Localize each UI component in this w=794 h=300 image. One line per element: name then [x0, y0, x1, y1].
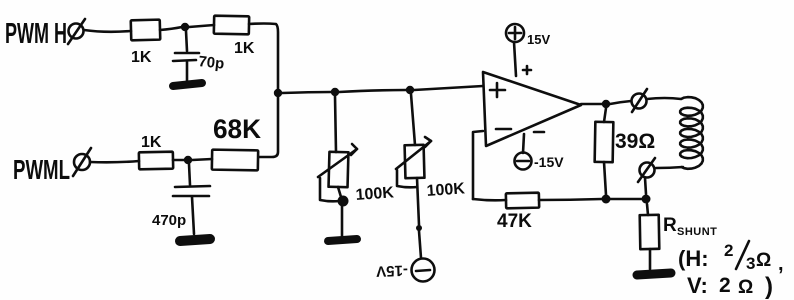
svg-text:2: 2: [724, 241, 733, 260]
ground C2: [180, 239, 210, 241]
svg-text:Ω: Ω: [738, 277, 753, 298]
svg-text:470p: 470p: [152, 212, 186, 229]
terminal PWM H: [68, 19, 85, 44]
svg-text:(H:: (H:: [678, 246, 709, 271]
wire minus input feedback down: [473, 131, 483, 199]
node label PWML: [13, 154, 70, 185]
svg-text:39Ω: 39Ω: [615, 130, 655, 153]
annotation H and V resistance values: [736, 241, 749, 269]
potentiometer P1 100K: [318, 96, 395, 204]
svg-text:100K: 100K: [355, 184, 395, 204]
wire node B to node D: [282, 92, 331, 93]
resistor R7 R_SHUNT: [640, 204, 718, 269]
wire PWMH terminal to R1: [84, 30, 131, 32]
terminal PWML: [73, 148, 91, 176]
wire op-amp output to node H: [581, 103, 602, 106]
svg-text:68K: 68K: [213, 114, 261, 144]
wire PWML terminal to R3: [90, 161, 139, 162]
wire feedback bottom to 47K: [473, 199, 506, 200]
resistor R6 39 ohm: [595, 108, 656, 195]
ground R_SHUNT: [637, 273, 671, 275]
svg-text:1K: 1K: [234, 40, 255, 57]
wire R1 to node A: [160, 27, 182, 30]
svg-text:R: R: [663, 215, 677, 236]
wire node A to R2: [189, 25, 214, 27]
wire node C to R4: [192, 159, 212, 160]
svg-text:70p: 70p: [198, 53, 225, 73]
resistor R3 1K: [139, 134, 173, 169]
capacitor C1 70p: [173, 31, 225, 82]
svg-text:): ): [765, 273, 773, 300]
node B: [274, 89, 282, 97]
wire node E to op-amp plus input: [414, 86, 483, 90]
resistor R5 47K: [497, 193, 539, 232]
capacitor C2 470p: [152, 164, 210, 234]
svg-text:2: 2: [719, 274, 731, 297]
svg-text:SHUNT: SHUNT: [677, 226, 717, 238]
wire P2 to -15V source: [419, 231, 421, 258]
node F pot1 wiper junction: [338, 196, 349, 207]
svg-text:PWML: PWML: [13, 154, 70, 185]
svg-text:V:: V:: [687, 273, 708, 298]
supply -15V: [515, 134, 565, 170]
junction dot on P2 wire: [416, 225, 422, 231]
potentiometer P2 100K: [396, 94, 466, 225]
wire R2 to corner and down to node B: [249, 24, 278, 90]
wire node B down to 68K output: [259, 97, 278, 157]
ground P1: [328, 239, 357, 241]
wire J2 to node I: [645, 178, 646, 194]
wire coil bottom to terminal J2: [656, 167, 683, 168]
node I: [642, 195, 651, 204]
node H: [602, 100, 610, 108]
svg-text:1K: 1K: [141, 134, 162, 151]
node C: [184, 156, 192, 164]
ground C1: [173, 83, 202, 86]
wire J1 to coil top: [647, 98, 681, 99]
svg-text:3: 3: [746, 254, 755, 273]
inductor L1 coil: [680, 97, 703, 169]
svg-text:47K: 47K: [497, 211, 532, 232]
resistor R1 1K: [131, 20, 161, 66]
wire node F to ground: [341, 206, 344, 237]
wire node H to terminal J1: [610, 101, 631, 104]
terminal J2: [638, 158, 655, 182]
supply +15V: [506, 24, 550, 76]
svg-text:100K: 100K: [426, 180, 466, 200]
node G: [602, 195, 611, 204]
wire node G to node I: [610, 198, 641, 201]
source -15V: [376, 259, 435, 282]
node D: [331, 88, 339, 96]
resistor R4 68K: [212, 114, 262, 170]
svg-text:,: ,: [778, 253, 784, 275]
wire R3 to node C: [173, 159, 184, 162]
svg-text:PWM H: PWM H: [5, 18, 67, 50]
node E: [406, 86, 414, 94]
svg-text:-15V: -15V: [376, 261, 408, 279]
node A: [181, 23, 189, 31]
svg-text:Ω: Ω: [756, 250, 771, 271]
op-amp U1: [483, 66, 581, 146]
node label PWM H: [5, 18, 67, 50]
svg-text:15V: 15V: [527, 32, 550, 47]
resistor R2 1K: [214, 16, 255, 57]
terminal J1: [632, 89, 648, 112]
svg-text:-15V: -15V: [534, 154, 564, 170]
wire 47K to node G: [539, 199, 602, 200]
svg-text:1K: 1K: [131, 49, 152, 66]
wire node D to node E: [339, 90, 406, 92]
